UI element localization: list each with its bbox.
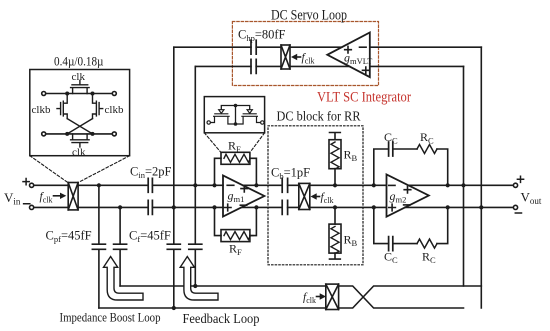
label CC bottom xyxy=(384,250,398,265)
node dots bottom rail xyxy=(65,132,94,136)
gm2 output minus xyxy=(404,204,410,206)
label RB top xyxy=(344,148,358,163)
gm1 input minus xyxy=(227,184,234,186)
label Vin xyxy=(4,179,30,207)
wire main line V+ (top signal path) xyxy=(34,184,514,186)
capacitor Cin bottom xyxy=(148,200,152,214)
label gmVLT xyxy=(344,51,373,67)
node dots top rail xyxy=(65,92,94,96)
label 0.4u/0.18u xyxy=(54,55,104,69)
wire RF top feedback loop xyxy=(215,158,257,185)
resistor RC bottom xyxy=(417,239,437,248)
gm1 output plus xyxy=(241,185,248,192)
wire cross-coupling X xyxy=(67,119,92,134)
wire RF bottom feedback loop xyxy=(215,207,257,235)
label clk bottom xyxy=(72,147,86,159)
label Feedback Loop xyxy=(183,311,260,326)
wire CC RC top feedback xyxy=(374,149,448,185)
wire bottom rail in callout xyxy=(42,132,117,136)
svg-text:DC block for RR: DC block for RR xyxy=(277,109,361,124)
label RC bottom xyxy=(422,250,436,265)
wire servo top line (output+ of gmVLT) xyxy=(174,46,481,48)
feedback loop arrow xyxy=(180,257,218,301)
gm2 output plus xyxy=(404,186,411,193)
label CC top xyxy=(384,130,398,145)
svg-text:Cpf=45fF: Cpf=45fF xyxy=(46,229,92,244)
label clk top xyxy=(72,71,86,83)
node dots gm2 input/output xyxy=(372,183,484,209)
transistor M2 left (clkb) xyxy=(57,94,67,119)
capacitor Chp bottom xyxy=(251,59,256,73)
resistor RB top xyxy=(329,140,341,169)
wire pseudo-resistor top rail xyxy=(221,106,249,125)
gm1 input plus xyxy=(224,204,231,211)
switch detail callout box 0.4u/0.18u xyxy=(30,70,130,156)
node dots on main lines (input side) xyxy=(97,183,198,209)
pseudo-resistor callout box xyxy=(204,97,264,133)
capacitor Cb top xyxy=(282,178,287,192)
gmVLT input minus xyxy=(360,46,367,48)
wire RB bottom branch xyxy=(330,207,341,259)
callout dashed leaders to switch S1 xyxy=(30,156,130,183)
svg-text:clk: clk xyxy=(72,147,86,159)
label RB bottom xyxy=(344,233,358,248)
capacitor Cf left xyxy=(167,244,180,249)
svg-text:VLT SC Integrator: VLT SC Integrator xyxy=(317,90,411,106)
label gm1 xyxy=(228,189,245,205)
label fclk DC block with arrow xyxy=(311,192,334,205)
svg-text:0.4µ/0.18µ: 0.4µ/0.18µ xyxy=(54,55,104,69)
switch S2 servo fclk xyxy=(281,45,290,69)
transistor MP1 left of pseudo-resistor xyxy=(207,110,236,125)
svg-text:m2: m2 xyxy=(396,195,407,205)
label Vout xyxy=(515,176,542,213)
label RC top xyxy=(420,130,434,145)
svg-text:mVLT: mVLT xyxy=(350,56,373,66)
svg-text:Cin=2pF: Cin=2pF xyxy=(130,165,172,180)
label RF bottom xyxy=(229,242,242,257)
svg-text:Feedback Loop: Feedback Loop xyxy=(183,311,260,326)
capacitor CC bottom xyxy=(389,237,393,251)
label Cf=45fF xyxy=(129,229,171,244)
node Vin terminals xyxy=(30,183,34,209)
resistor RF bottom xyxy=(221,230,253,242)
wire feedback crossover X xyxy=(339,286,482,308)
node dots pseudo-resistor xyxy=(234,104,238,126)
switch S4 feedback fclk xyxy=(326,284,339,309)
wire Cpf branch left (from V+ down) xyxy=(98,185,100,308)
capacitor Cin top xyxy=(148,178,152,192)
svg-text:clk: clk xyxy=(72,71,86,83)
svg-text:Cf=45fF: Cf=45fF xyxy=(129,229,171,244)
label DC block for RR xyxy=(277,109,361,124)
wire feedback bus A (upper bottom wire) xyxy=(120,285,326,287)
capacitor Cb bottom xyxy=(282,200,287,214)
wire RB top branch xyxy=(330,133,341,186)
wire main line V- (bottom signal path) xyxy=(34,206,514,208)
node dots gm1 input/output xyxy=(212,183,258,209)
capacitor Cf right xyxy=(189,244,202,249)
wire top rail in callout xyxy=(42,92,117,96)
transistor M1 top (clk) xyxy=(71,81,90,94)
node Vout terminals xyxy=(513,183,517,209)
label DC Servo Loop xyxy=(271,8,347,24)
label Cpf=45fF xyxy=(46,229,92,244)
svg-text:Impedance Boost Loop: Impedance Boost Loop xyxy=(60,310,161,325)
DC servo loop dashed box xyxy=(232,22,378,86)
capacitor CC top xyxy=(389,142,393,156)
callout dashed leaders to RF top xyxy=(204,133,264,152)
label Impedance Boost Loop xyxy=(60,310,161,325)
capacitor Cpf left xyxy=(92,244,105,249)
label Cb=1pF xyxy=(271,166,310,181)
gmVLT input plus xyxy=(363,67,370,74)
label fclk servo with arrow xyxy=(291,52,314,65)
svg-text:m1: m1 xyxy=(234,194,245,204)
wire servo bottom line (output- of gmVLT) xyxy=(196,65,464,67)
gm2 input plus xyxy=(389,204,396,211)
resistor RF top xyxy=(221,152,253,164)
resistor RB bottom xyxy=(329,224,341,253)
label VLT SC Integrator xyxy=(317,90,411,106)
label Cin=2pF xyxy=(130,165,172,180)
op-amp gm1 xyxy=(223,175,264,216)
label clkb left xyxy=(32,104,51,116)
transistor M3 right (clkb) xyxy=(93,94,103,119)
svg-text:clkb: clkb xyxy=(32,104,51,116)
label RF top xyxy=(228,139,241,154)
label fclk feedback with arrow xyxy=(303,292,326,305)
wire Cpf branch right (from V- down) xyxy=(119,207,121,286)
wire servo/Cf branch right (joins V+) xyxy=(194,66,196,286)
capacitor Chp top xyxy=(251,40,256,54)
capacitor Cpf right xyxy=(114,244,127,249)
svg-text:clkb: clkb xyxy=(105,104,124,116)
wire servo sense far right vertical (to Vout-) xyxy=(480,47,482,308)
gm2 input minus xyxy=(389,184,395,186)
switch S3 DC block fclk xyxy=(299,183,310,209)
node dots RB taps xyxy=(333,183,337,209)
gmVLT output plus xyxy=(345,46,352,53)
label Chp=80fF xyxy=(238,28,286,43)
svg-text:DC Servo Loop: DC Servo Loop xyxy=(271,8,347,24)
op-amp gmVLT (points left) xyxy=(327,33,370,78)
impedance boost loop arrow xyxy=(104,257,144,301)
switch S1 input fclk xyxy=(68,183,78,210)
gm1 output minus xyxy=(240,204,246,206)
wire feedback bus B (lower bottom wire) xyxy=(99,307,326,309)
op-amp gm2 xyxy=(387,174,429,216)
label clkb right xyxy=(105,104,124,116)
svg-text:Cb=1pF: Cb=1pF xyxy=(271,166,310,181)
resistor RC top xyxy=(417,145,437,154)
svg-text:Chp=80fF: Chp=80fF xyxy=(238,28,286,43)
wire CC RC bottom feedback xyxy=(374,207,448,243)
node dots feedback bus xyxy=(172,284,198,310)
label gm2 xyxy=(390,189,407,205)
wire servo/Cf branch left (crosses V+, joins V-) xyxy=(173,47,175,308)
wire servo sense right vertical (to Vout+) xyxy=(463,66,465,286)
transistor M4 bottom (clk) xyxy=(71,134,90,147)
DC block for RR dashed box xyxy=(268,126,363,265)
label fclk input with arrow xyxy=(40,191,67,204)
transistor MP2 right of pseudo-resistor xyxy=(236,110,264,125)
